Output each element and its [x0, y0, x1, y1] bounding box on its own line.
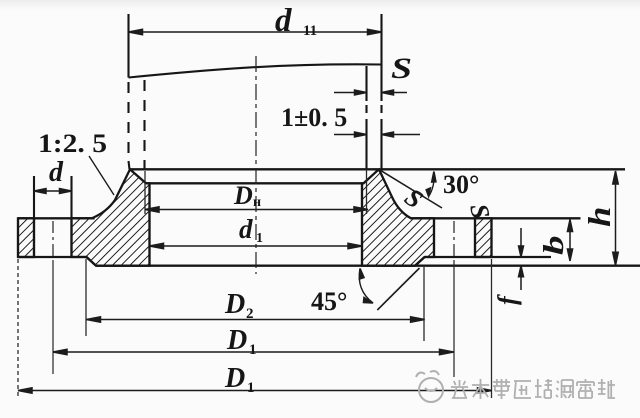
pipe outer wall left: solid top (d11 extension): [127, 14, 129, 78]
right bolt hole right edge: [474, 218, 476, 257]
plate bottom left: [18, 256, 87, 258]
bolt hole centre line left: [52, 221, 54, 260]
flange right main hub section: [362, 170, 434, 266]
left OD edge: [17, 218, 19, 257]
watermark glyph ya: [514, 381, 531, 398]
svg-text:h: h: [582, 207, 617, 227]
bolt hole left edge + d extension: [33, 176, 35, 257]
dim d1: [150, 245, 363, 247]
flange right outer ring: [475, 218, 492, 257]
svg-text:1±0. 5: 1±0. 5: [281, 103, 347, 132]
svg-text:1: 1: [256, 231, 263, 246]
svg-text:1: 1: [247, 380, 255, 396]
bolt hole centre line right: [453, 221, 455, 260]
dim S arrows: [334, 92, 367, 94]
45 deg angle arc: [359, 269, 373, 304]
30 deg angle arrow: [429, 173, 434, 196]
dim 1±0.5 arrows: [334, 134, 367, 136]
extension line OD right: [491, 259, 493, 398]
logo: small mascot circles: [416, 373, 425, 377]
dim D2: [87, 319, 425, 321]
left chamfer raised face: [87, 257, 97, 266]
dim f arrows: [520, 228, 522, 257]
svg-text:d: d: [239, 214, 253, 244]
45 deg chamfer leader: [377, 268, 419, 310]
watermark glyph mi: [577, 379, 594, 398]
dim D outer: [18, 390, 492, 392]
svg-text:D: D: [233, 181, 253, 210]
dim Dn: [145, 209, 368, 211]
plate bottom right + extension: [425, 256, 551, 258]
dim d11: [129, 31, 382, 33]
svg-text:30°: 30°: [443, 170, 479, 199]
pipe outer wall left dashed: [127, 82, 129, 161]
svg-text:45°: 45°: [311, 287, 347, 316]
raised face bottom + extension: [96, 265, 640, 267]
pipe inner wall left dashed: [143, 80, 145, 161]
watermark glyph feng: [598, 379, 615, 398]
extension line OD left (dotted): [17, 259, 19, 399]
watermark glyph ben: [472, 379, 489, 399]
plate top left: [18, 217, 94, 219]
svg-text:н: н: [253, 195, 261, 210]
svg-text:D: D: [226, 325, 247, 356]
bore wall right: [361, 183, 363, 265]
centre line of flange: [53, 56, 454, 377]
top face line: [129, 168, 625, 170]
svg-text:1: 1: [249, 342, 257, 358]
right chamfer raised face: [415, 257, 425, 266]
svg-text:b: b: [538, 235, 570, 255]
extension line D2 left: [85, 259, 87, 336]
30 degree weld bevel line: [89, 156, 442, 310]
watermark glyph du: [535, 379, 552, 398]
extension line D2 right: [423, 267, 425, 341]
watermark glyph dai: [493, 379, 510, 399]
socket shoulder: [146, 182, 364, 184]
watermark glyph lou: [556, 380, 573, 398]
bore wall left: [148, 183, 150, 265]
svg-text:D: D: [224, 289, 245, 320]
svg-text:2: 2: [246, 306, 254, 322]
svg-text:d: d: [49, 157, 64, 188]
dim d (bolt hole): [34, 190, 72, 192]
pipe break curve: [129, 64, 382, 77]
plate top right + extension: [411, 217, 581, 219]
pipe inner wall right: [365, 66, 367, 101]
Dn extension left (pipe inner prolong): [144, 171, 146, 214]
watermark CJK-like glyph strokes: [451, 379, 615, 399]
pipe outer wall right (d11 extension): [380, 14, 382, 101]
photo border shading: [0, 0, 1, 1]
watermark glyph guang: [451, 380, 468, 398]
svg-text:S: S: [391, 52, 412, 85]
right bolt hole left edge: [433, 218, 435, 257]
dim h: [615, 171, 617, 265]
svg-text:D: D: [224, 363, 245, 394]
right OD edge: [490, 218, 492, 257]
svg-text:1:2. 5: 1:2. 5: [38, 129, 107, 158]
dim D1 (bolt circle): [53, 351, 454, 353]
flange left main hub section: [72, 169, 150, 265]
svg-text:d: d: [275, 3, 292, 39]
Dn extension right: [366, 169, 368, 214]
svg-text:11: 11: [303, 23, 317, 39]
bolt hole right edge + d extension: [70, 176, 72, 257]
dim b: [569, 220, 571, 261]
1:2.5 leader: [89, 156, 114, 195]
flange body left outer ring (section through bolt hole): [18, 218, 34, 257]
